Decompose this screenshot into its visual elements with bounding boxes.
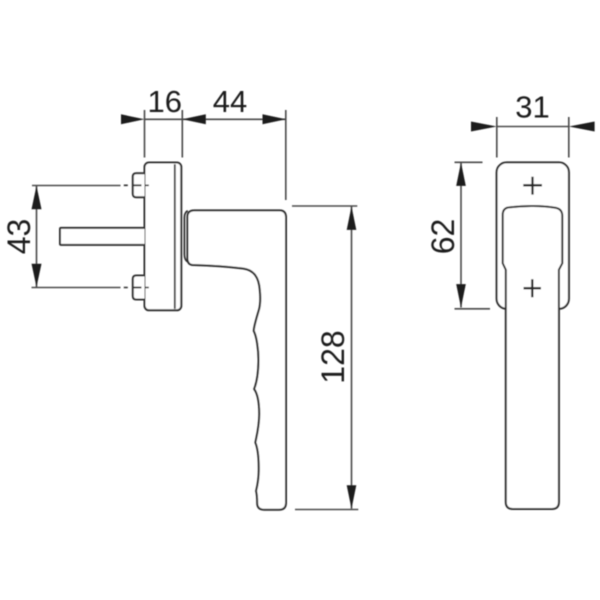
neck collar (side view sliver) xyxy=(184,211,187,262)
dimension 62: dim line xyxy=(460,163,462,308)
dimension 16: left arrow xyxy=(121,114,145,124)
dimension 31: extension line left xyxy=(496,117,498,158)
screw top slot xyxy=(133,184,142,186)
plate front-face inner edge line xyxy=(174,164,176,308)
dimension 16: extension line left (plate back face) xyxy=(144,110,146,158)
dimension 43: top extension line xyxy=(32,185,121,187)
dimension 16: extension line right (plate front) xyxy=(181,110,183,158)
dimension 31: extension line right xyxy=(568,117,570,158)
dimension 43: bottom arrow xyxy=(32,264,42,287)
screw top (side view) xyxy=(133,173,145,197)
dimension 128: bottom arrow xyxy=(347,485,357,509)
dimension 16/44 shared arrow pointing left at x=182.3 xyxy=(182,114,206,124)
svg-text:62: 62 xyxy=(425,219,461,255)
dimension 62: bottom arrow xyxy=(456,284,466,307)
screw top front view (+) xyxy=(523,177,542,195)
handle lever (front view) xyxy=(503,206,563,509)
dimension 31: dim line xyxy=(497,126,569,128)
dimension 62: bottom extension line xyxy=(455,308,491,310)
svg-text:16: 16 xyxy=(148,84,182,119)
svg-text:31: 31 xyxy=(515,90,549,125)
dimension 128: bottom extension line xyxy=(295,509,358,511)
dimension 31: right arrow xyxy=(569,122,595,132)
svg-text:43: 43 xyxy=(1,219,37,255)
dimension 31: left arrow xyxy=(471,122,497,132)
dimension 43: top arrow xyxy=(32,186,42,209)
dimension 128: dim line xyxy=(351,206,353,508)
screw bottom front view (+) xyxy=(524,279,542,297)
rosette (front view) xyxy=(497,162,569,308)
dimension 43: bottom extension line xyxy=(32,287,121,289)
dimension 62: top extension line xyxy=(455,161,483,163)
handle lever (side view outline) xyxy=(187,210,286,509)
svg-text:128: 128 xyxy=(315,330,351,383)
screw top center line (dash-dot) xyxy=(124,184,149,186)
svg-text:44: 44 xyxy=(213,84,247,119)
spindle (square bar) xyxy=(60,228,145,245)
dimension 128: top arrow xyxy=(347,206,357,230)
dimension 128: top extension line xyxy=(292,205,357,207)
dimension 62: top arrow xyxy=(456,163,466,186)
dimension 16: dim line xyxy=(145,118,183,120)
screw bottom (side view) xyxy=(133,276,145,300)
screw bottom slot xyxy=(133,287,142,289)
plate (rosette side view) xyxy=(145,163,182,311)
dimension 44: extension line right (handle outer edge) xyxy=(285,110,287,200)
dimension 44: right arrow xyxy=(263,114,287,124)
screw bottom center line (dash-dot) xyxy=(124,287,149,289)
dimension 43: dim line xyxy=(36,186,38,287)
dimension 44: dim line xyxy=(182,118,286,120)
